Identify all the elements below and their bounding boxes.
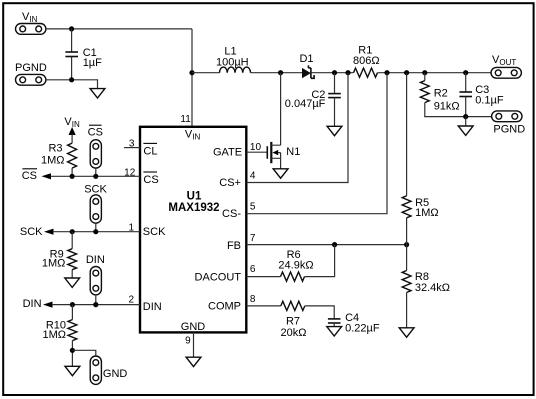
junction DIN oval [93,302,98,307]
pin 12 label [124,167,136,178]
label C2 0.047uF [285,89,326,110]
resistor R9 [68,232,77,278]
svg-text:R8: R8 [415,271,429,283]
label GND right of oval [103,368,128,380]
svg-text:R3: R3 [48,143,62,155]
svg-text:1MΩ: 1MΩ [41,154,65,166]
arrow SCK left [44,229,54,235]
label R5 1Mohm [415,197,439,219]
capacitor C4 [328,319,341,327]
wire VIN rail to corner [46,28,192,30]
label CS left with overline [22,169,37,182]
pin 2 label [128,295,134,306]
svg-text:10: 10 [250,142,262,153]
pin label FB inside [227,240,241,252]
diode D1 (Schottky) [302,65,314,78]
svg-text:91kΩ: 91kΩ [434,101,460,113]
resistor R7 [281,301,305,310]
label U1 [187,191,202,203]
junction R9 top [70,229,75,234]
pin label GATE inside [213,147,242,159]
pin 6 label [250,264,256,275]
label VIN (top-left) [22,11,38,24]
wire SCK oval stub [95,223,97,232]
svg-text:CS: CS [22,170,37,182]
svg-text:100µH: 100µH [216,57,249,69]
capacitor C1 [65,29,78,80]
connector VOUT [491,67,521,78]
label C1 1uF [83,47,102,69]
resistor R1 [354,68,378,77]
svg-text:806Ω: 806Ω [353,55,380,67]
label N1 [286,146,300,158]
junction R3 bottom [70,174,75,179]
inductor L1 [220,67,251,73]
junction N1 drain [278,70,283,75]
junction SCK oval [93,229,98,234]
wire D1 to R1 [311,72,354,74]
junction CS- top [384,70,389,75]
svg-text:DIN: DIN [143,301,162,313]
wire SCK to pin 1 [53,231,140,233]
label CS above oval with overline [88,125,103,138]
arrow DIN left [43,302,53,308]
svg-text:MAX1932: MAX1932 [168,202,219,214]
wire R7 to C4 [305,306,334,319]
resistor R3 [68,143,77,176]
capacitor C3 [459,73,472,117]
svg-text:1MΩ: 1MΩ [42,258,66,270]
IC U1 MAX1932 [140,127,246,333]
label R8 32.4kohm [415,271,450,294]
wire R1 to VOUT [378,72,492,74]
wire DACOUT pin 6 [246,276,280,278]
svg-text:0.047µF: 0.047µF [285,98,326,110]
pin 7 label [250,233,256,244]
wire COMP pin 8 [246,305,280,307]
wire FB pin 7 [246,244,406,246]
svg-text:0.22µF: 0.22µF [345,322,380,334]
svg-text:32.4kΩ: 32.4kΩ [415,282,450,294]
label C4 0.22uF [345,312,380,335]
connector CS oval [90,140,101,168]
label C3 0.1uF [475,84,504,107]
svg-text:FB: FB [227,240,241,252]
arrow CS left [42,173,52,179]
svg-text:8: 8 [250,294,256,305]
connector DIN oval [90,267,101,295]
svg-text:7: 7 [250,233,256,244]
pin label CS- inside [222,208,241,220]
svg-text:GATE: GATE [213,147,242,159]
junction R2 top [422,70,427,75]
pin label VIN inside IC [185,129,201,142]
svg-text:5: 5 [250,202,256,213]
svg-text:U1: U1 [187,191,202,203]
wire CS- pin 5 [246,73,387,214]
pin 3 stub [124,147,140,149]
resistor R10 [68,305,77,367]
wire pin 9 to ground [193,332,195,357]
svg-text:1µF: 1µF [83,57,102,69]
svg-text:20kΩ: 20kΩ [281,327,307,339]
pin 1 label [128,223,134,234]
label R3 1Mohm [41,143,65,167]
pin label CS+ inside [219,177,241,189]
label R10 1Mohm [42,320,66,341]
svg-text:R2: R2 [434,88,448,100]
svg-text:24.9kΩ: 24.9kΩ [278,260,313,272]
junction C1 top [69,26,74,31]
wire PGND to ground [46,80,98,89]
svg-text:6: 6 [250,264,256,275]
label R1 806ohm [353,45,380,68]
svg-text:COMP: COMP [208,301,241,313]
label PGND (top-left) [15,62,47,74]
connector SCK oval [90,195,101,223]
connector GND oval [90,356,101,384]
wire DIN oval stub [95,295,97,305]
svg-text:SCK: SCK [20,226,43,238]
ground (R9) [65,278,80,287]
svg-text:CS: CS [143,174,158,186]
svg-text:R7: R7 [286,316,300,328]
label R6 24.9kohm [278,249,313,271]
svg-text:PGND: PGND [493,124,525,136]
transistor N1 [246,73,280,169]
pin label CS with overline [143,172,158,186]
wire corner down to pin 11 [191,29,193,127]
svg-text:CS: CS [88,127,103,139]
label VIN above R3 [64,116,80,129]
wire CS+ pin 4 [246,73,348,183]
svg-text:9: 9 [185,336,191,347]
wire CS oval stub [95,168,97,176]
wire R6 to FB [305,245,335,277]
label R2 91kohm [434,88,460,113]
pin label COMP inside [208,301,241,313]
svg-text:3: 3 [129,139,135,150]
svg-text:4: 4 [250,171,256,182]
ground (N1) [273,169,288,178]
label L1 100uH [216,46,249,69]
label R7 20kohm [281,316,307,340]
connector VIN [16,24,46,35]
svg-text:CS-: CS- [222,208,241,220]
svg-text:11: 11 [180,114,191,125]
label PGND right [493,124,525,136]
ground (C3) [458,126,473,135]
pin label DIN inside [143,301,162,313]
ground (C4) [327,327,342,336]
wire CS to pin 12 [51,175,141,177]
junction CS+ top [345,70,350,75]
label DIN above oval [86,254,105,266]
pin label CL with overline [143,143,157,157]
capacitor C2 [328,73,341,127]
junction R5 top [404,70,409,75]
ground (R10) [65,366,80,375]
arrow VIN up [69,127,76,143]
svg-text:N1: N1 [286,146,300,158]
wire DIN to pin 2 [52,304,140,306]
junction CS oval [93,174,98,179]
ground (pin 9) [186,357,201,366]
junction R6 to FB [332,242,337,247]
wire L1 to D1 [251,72,303,74]
wire to GND oval [72,350,95,356]
ground (C2) [327,126,342,135]
svg-text:1MΩ: 1MΩ [415,207,439,219]
svg-text:CL: CL [143,145,157,157]
svg-text:2: 2 [128,295,134,306]
pin 8 label [250,294,256,305]
pin 10 label [250,142,262,153]
resistor R6 [281,272,305,281]
label MAX1932 [168,202,219,214]
svg-text:1MΩ: 1MΩ [42,329,66,341]
pin label SCK inside [143,226,166,238]
junction R10 top [70,302,75,307]
junction R10 bottom [70,348,75,353]
connector PGND top-left [16,74,46,85]
junction node rail / pin 11 [189,70,194,75]
pin 5 label [250,202,256,213]
label VOUT [492,54,516,67]
junction FB / R5 / R8 [404,242,409,247]
wire rail to L1 [192,72,220,74]
wire C3 bottom to ground [465,117,467,126]
svg-text:CS+: CS+ [219,177,241,189]
svg-text:DIN: DIN [23,298,42,310]
svg-text:SCK: SCK [84,184,107,196]
junction C2 top [332,70,337,75]
label R9 1Mohm [42,248,66,269]
svg-text:DIN: DIN [86,254,105,266]
svg-text:D1: D1 [299,53,313,65]
svg-text:PGND: PGND [15,62,47,74]
label SCK above oval [84,184,107,196]
pin 9 label [185,336,191,347]
pin label DACOUT inside [195,272,242,284]
pin 11 label [180,114,191,125]
ground (R8) [399,328,414,337]
svg-text:GND: GND [181,321,206,333]
label DIN left [23,298,42,310]
pin label GND inside [181,321,206,333]
pin 3 label [129,139,135,150]
junction C1 bottom [69,77,74,82]
label D1 [299,53,313,65]
ground (top-left PGND) [90,89,105,98]
svg-text:GND: GND [103,368,128,380]
resistor R2 [420,73,491,117]
junction C3 bottom [463,114,468,119]
resistor R8 [402,245,411,328]
label SCK left [20,226,43,238]
svg-text:SCK: SCK [143,226,166,238]
svg-text:0.1µF: 0.1µF [475,95,504,107]
junction C3 top [463,70,468,75]
resistor R5 [402,73,411,245]
connector PGND right [492,111,522,122]
pin 4 label [250,171,256,182]
svg-text:DACOUT: DACOUT [195,272,242,284]
